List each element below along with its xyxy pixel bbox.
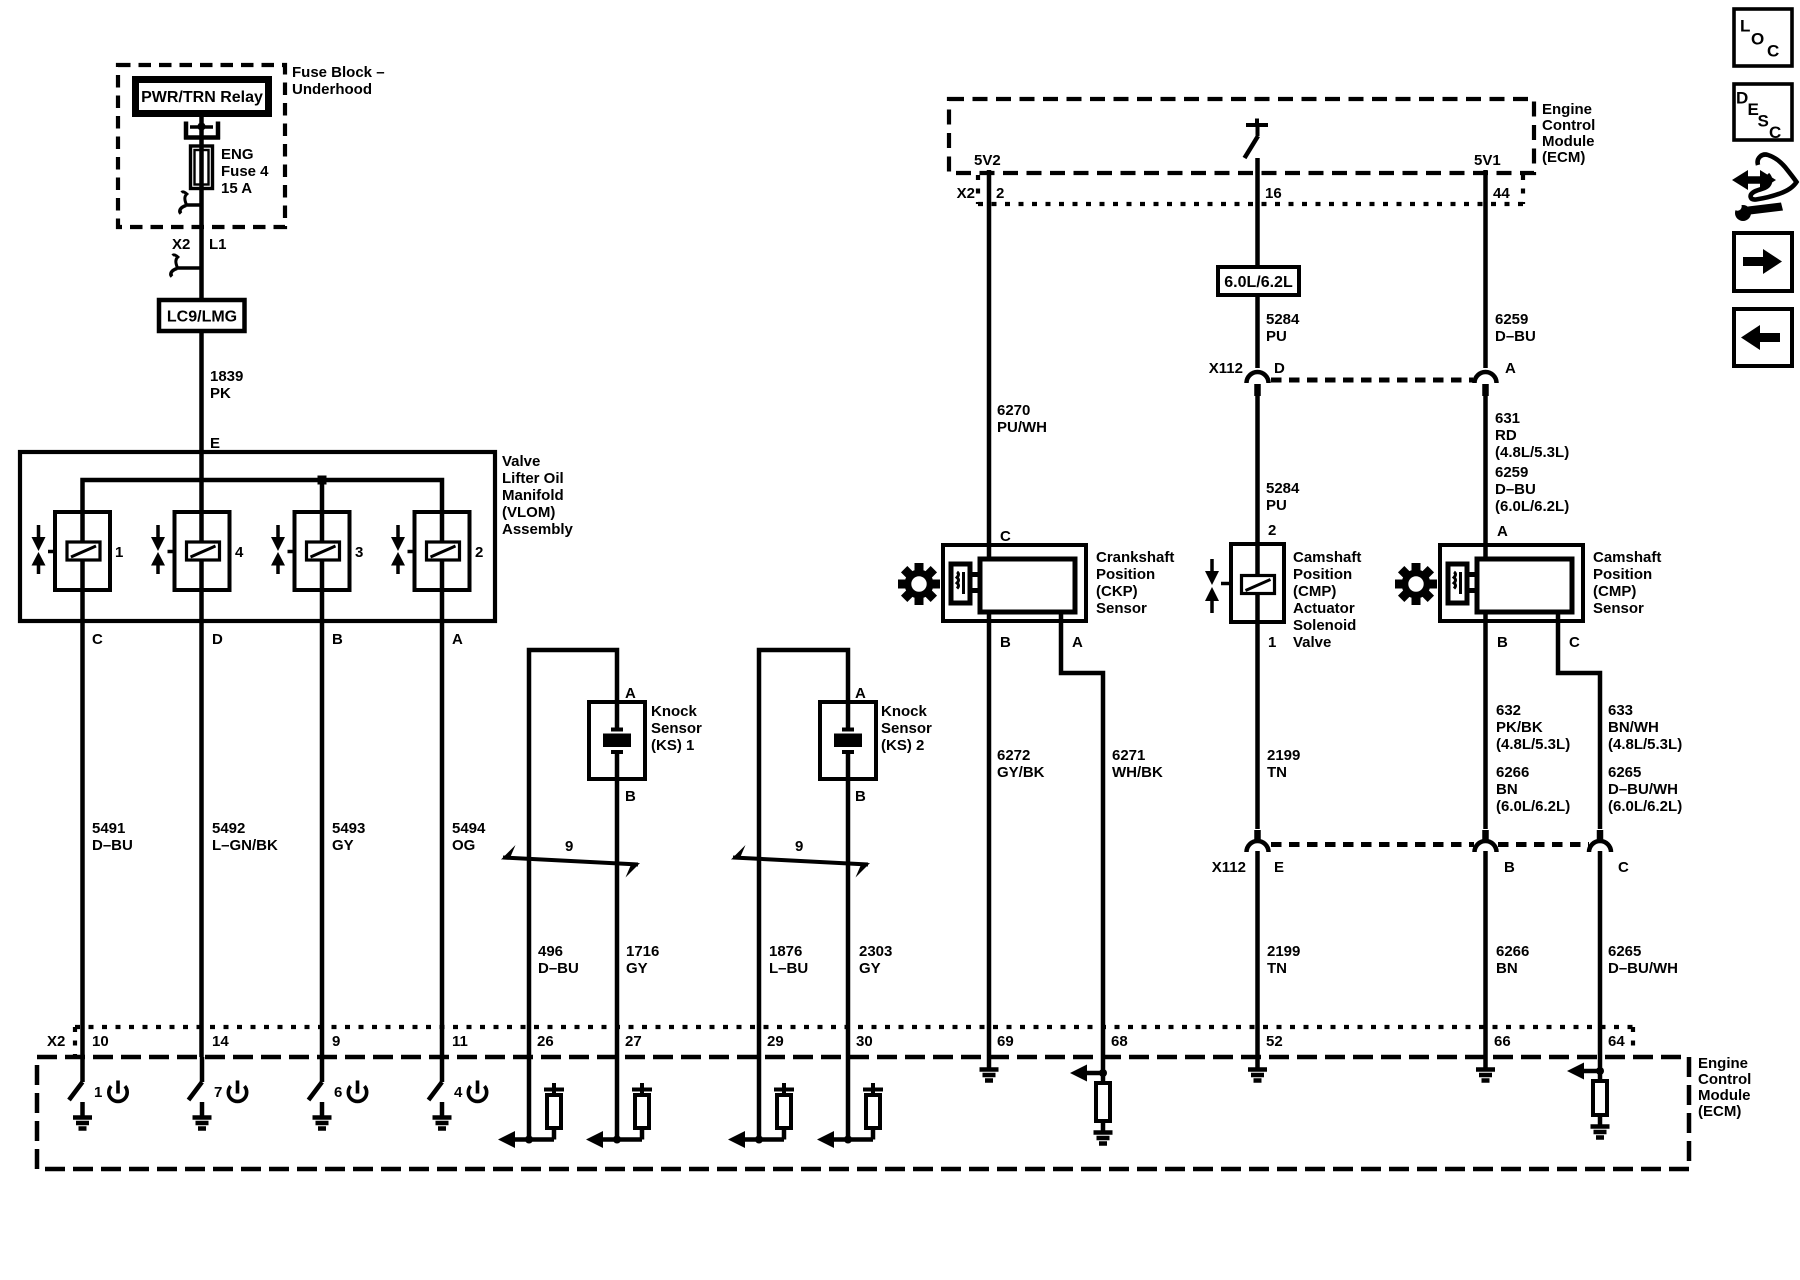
svg-text:X2: X2 (172, 236, 190, 253)
svg-text:LC9/LMG: LC9/LMG (167, 309, 237, 326)
ECM low-side driver 6 (309, 1057, 343, 1101)
bias resistor pin 29 (774, 1083, 794, 1140)
svg-text:L–BU: L–BU (769, 960, 808, 977)
CKP sensor outer box (943, 545, 1086, 621)
pin 30 label (856, 1033, 873, 1050)
wire 5284 PU to CMP actuator (1255, 396, 1260, 829)
CMP sensor outer box (1440, 545, 1583, 621)
wire X112 A to CMP sensor A (1483, 396, 1488, 559)
svg-text:Sensor: Sensor (1593, 600, 1644, 617)
knock sensor KS1 wires (529, 650, 617, 1057)
svg-text:Valve: Valve (1293, 634, 1331, 651)
label Engine Control Module (ECM) bottom (1698, 1055, 1751, 1120)
pin 14 label (212, 1033, 229, 1050)
pin 52 label (1266, 1033, 1283, 1050)
svg-text:(6.0L/6.2L): (6.0L/6.2L) (1608, 798, 1682, 815)
svg-text:Assembly: Assembly (502, 521, 574, 538)
svg-text:4: 4 (454, 1084, 463, 1101)
bias resistor pin 30 (863, 1083, 883, 1140)
svg-text:L1: L1 (209, 236, 227, 253)
svg-text:52: 52 (1266, 1033, 1283, 1050)
svg-text:631: 631 (1495, 410, 1520, 427)
svg-text:9: 9 (332, 1033, 340, 1050)
CKP pin C label (1000, 528, 1011, 545)
svg-text:C: C (1569, 634, 1580, 651)
svg-text:D–BU: D–BU (1495, 481, 1536, 498)
svg-text:A: A (1497, 523, 1508, 540)
svg-text:9: 9 (795, 838, 803, 855)
KS bias network pin 30 (817, 1057, 873, 1148)
svg-text:44: 44 (1493, 185, 1510, 202)
knock sensor KS1 (589, 702, 645, 779)
wire 1839 PK (199, 331, 204, 1057)
label 2199 TN upper (1267, 747, 1300, 781)
label Camshaft Position (CMP) Actuator Solenoid Valve (1293, 549, 1361, 651)
CKP pin A label (1072, 634, 1083, 651)
svg-text:PWR/TRN Relay: PWR/TRN Relay (141, 89, 263, 106)
svg-text:6266: 6266 (1496, 764, 1529, 781)
power icon driver 1 (109, 1081, 127, 1102)
svg-text:Engine: Engine (1698, 1055, 1748, 1072)
svg-text:Position: Position (1096, 566, 1155, 583)
svg-text:BN: BN (1496, 781, 1518, 798)
pin 16 label (1265, 185, 1282, 202)
valve symbol 4 (151, 525, 165, 574)
connector X112 pin C (1589, 830, 1611, 852)
svg-text:ENG: ENG (221, 146, 254, 163)
svg-text:D–BU: D–BU (538, 960, 579, 977)
knock sensor KS2 (820, 702, 876, 779)
KS1 pin B label (625, 788, 636, 805)
connector X112 label upper (1209, 360, 1243, 377)
svg-text:Lifter Oil: Lifter Oil (502, 470, 564, 487)
svg-text:Fuse 4: Fuse 4 (221, 163, 269, 180)
label 6271 WH/BK (1112, 747, 1163, 781)
label wire 5493 GY (332, 820, 365, 854)
svg-text:Actuator: Actuator (1293, 600, 1355, 617)
svg-text:C: C (1000, 528, 1011, 545)
ground pin 69 (980, 1057, 999, 1081)
svg-text:6272: 6272 (997, 747, 1030, 764)
relay K1 PWR/TRN Relay (136, 80, 269, 114)
svg-text:OG: OG (452, 837, 475, 854)
svg-text:(4.8L/5.3L): (4.8L/5.3L) (1608, 736, 1682, 753)
label Valve Lifter Oil Manifold (VLOM) Assembly (502, 453, 574, 538)
wire CMP B to X112 B (1483, 612, 1488, 829)
value label 4 (235, 544, 244, 561)
pin 68 sense network (1070, 1057, 1107, 1083)
pin 10 label (92, 1033, 109, 1050)
svg-text:B: B (625, 788, 636, 805)
pin A label (452, 631, 463, 648)
connector X112 pin B (1475, 830, 1497, 852)
ground pin 52 (1248, 1057, 1267, 1081)
svg-text:5491: 5491 (92, 820, 125, 837)
pin E label (210, 435, 220, 452)
svg-text:B: B (332, 631, 343, 648)
valve symbol 2 (391, 525, 405, 574)
svg-text:B: B (855, 788, 866, 805)
ground pin 64 resistor (1591, 1127, 1610, 1138)
X112 pin C label (1618, 859, 1629, 876)
svg-text:Knock: Knock (881, 703, 928, 720)
svg-text:C: C (1769, 123, 1781, 142)
svg-text:X112: X112 (1212, 859, 1246, 876)
svg-text:(4.8L/5.3L): (4.8L/5.3L) (1496, 736, 1570, 753)
label 1839 PK (210, 368, 243, 402)
solenoid valve 2 (408, 512, 470, 590)
svg-text:6259: 6259 (1495, 464, 1528, 481)
solenoid valve 3 (288, 512, 350, 590)
connector X2 label top (957, 185, 975, 202)
label Fuse Block - Underhood (292, 64, 385, 98)
pulldown resistor pin 68 (1096, 1083, 1110, 1132)
relay terminal cup (184, 122, 220, 140)
svg-text:PU/WH: PU/WH (997, 419, 1047, 436)
svg-text:66: 66 (1494, 1033, 1511, 1050)
CMP pin B label (1497, 634, 1508, 651)
svg-text:S: S (1758, 112, 1769, 131)
svg-text:(VLOM): (VLOM) (502, 504, 555, 521)
twisted pair marker 9 for KS2 (731, 838, 870, 878)
svg-text:GY: GY (332, 837, 354, 854)
connector clip symbol at X2 L1 (171, 255, 202, 277)
solenoid valve 4 (168, 512, 230, 590)
wire solenoid columns down to ECM (83, 512, 443, 1057)
label 2199 TN lower (1267, 943, 1300, 977)
svg-text:O: O (1751, 30, 1764, 49)
svg-text:A: A (1505, 360, 1516, 377)
connector X112 pin D (1247, 372, 1269, 396)
svg-text:3: 3 (355, 544, 363, 561)
svg-text:6.0L/6.2L: 6.0L/6.2L (1224, 274, 1293, 291)
svg-text:A: A (452, 631, 463, 648)
fuse F4 ENG Fuse 4 15 A (191, 146, 270, 197)
svg-text:27: 27 (625, 1033, 642, 1050)
svg-text:Control: Control (1698, 1071, 1751, 1088)
svg-text:6265: 6265 (1608, 764, 1641, 781)
nav icon swap/tools (1732, 155, 1797, 221)
svg-text:1716: 1716 (626, 943, 659, 960)
bias resistor pin 27 (632, 1083, 652, 1140)
svg-text:6271: 6271 (1112, 747, 1145, 764)
solenoid valve 1 (48, 512, 110, 590)
svg-text:5V2: 5V2 (974, 152, 1001, 169)
pin 9 label (332, 1033, 340, 1050)
reluctor wheel gear CMP (1386, 554, 1445, 613)
ECM X2 connector row top dotted (978, 175, 1523, 204)
junction on bus at solenoid 3 (318, 476, 327, 485)
svg-text:633: 633 (1608, 702, 1633, 719)
svg-text:Position: Position (1293, 566, 1352, 583)
svg-text:2303: 2303 (859, 943, 892, 960)
pin 27 label (625, 1033, 642, 1050)
svg-text:1: 1 (115, 544, 123, 561)
svg-text:2: 2 (996, 185, 1004, 202)
svg-text:C: C (1767, 42, 1779, 61)
label 633 BN/WH (4.8L/5.3L) (1608, 702, 1682, 753)
svg-text:X112: X112 (1209, 360, 1243, 377)
label 5284 PU lower (1266, 480, 1300, 514)
svg-text:15 A: 15 A (221, 180, 252, 197)
svg-text:B: B (1504, 859, 1515, 876)
label Crankshaft Position (CKP) Sensor (1096, 549, 1174, 617)
label wire 2303 GY (859, 943, 892, 977)
svg-text:D–BU: D–BU (1495, 328, 1536, 345)
connector X112 pin A (1475, 372, 1497, 396)
label 5284 PU upper (1266, 311, 1300, 345)
label 6259 D-BU (6.0L/6.2L) (1495, 464, 1569, 515)
svg-text:C: C (1618, 859, 1629, 876)
svg-text:5284: 5284 (1266, 480, 1300, 497)
svg-text:(6.0L/6.2L): (6.0L/6.2L) (1495, 498, 1569, 515)
svg-text:Underhood: Underhood (292, 81, 372, 98)
label 6272 GY/BK (997, 747, 1045, 781)
svg-text:B: B (1000, 634, 1011, 651)
value label 2 (475, 544, 483, 561)
ground driver 6 (313, 1102, 332, 1129)
svg-text:B: B (1497, 634, 1508, 651)
svg-text:A: A (1072, 634, 1083, 651)
power icon driver 4 (468, 1081, 486, 1102)
node 6.0L/6.2L (1218, 267, 1299, 295)
ECM X2 connector row bottom dotted (75, 1027, 1633, 1057)
CMP actuator solenoid valve (1221, 544, 1284, 622)
label 6259 D-BU upper (1495, 311, 1536, 345)
svg-text:TN: TN (1267, 764, 1287, 781)
pin C label (92, 631, 103, 648)
svg-text:E: E (210, 435, 220, 452)
power icon driver 7 (228, 1081, 246, 1102)
label 6265 D-BU/WH (6.0L/6.2L) (1608, 764, 1682, 815)
KS2 pin B label (855, 788, 866, 805)
svg-text:(KS) 1: (KS) 1 (651, 737, 694, 754)
label 632 PK/BK (4.8L/5.3L) (1496, 702, 1570, 753)
svg-text:PU: PU (1266, 328, 1287, 345)
valve symbol 3 (271, 525, 285, 574)
engine control module top dashed box (949, 99, 1534, 173)
nav button LOC (1734, 9, 1792, 66)
svg-text:(CMP): (CMP) (1293, 583, 1336, 600)
nav button DESC (1734, 84, 1792, 142)
pin 66 label (1494, 1033, 1511, 1050)
X112 pin E label (1274, 859, 1284, 876)
svg-text:9: 9 (565, 838, 573, 855)
svg-text:Sensor: Sensor (1096, 600, 1147, 617)
value label 3 (355, 544, 363, 561)
wire 6272 GY/BK CKP B to pin 69 (987, 612, 992, 1057)
ground driver 7 (193, 1102, 212, 1129)
svg-text:BN/WH: BN/WH (1608, 719, 1659, 736)
power icon driver 6 (348, 1081, 366, 1102)
pin 2 label (996, 185, 1004, 202)
label Knock Sensor (KS) 1 (651, 703, 702, 754)
svg-text:5493: 5493 (332, 820, 365, 837)
label 6270 PU/WH (997, 402, 1047, 436)
CMP sensor pin A label (1497, 523, 1508, 540)
CMP sensor element (1448, 564, 1477, 603)
svg-text:Position: Position (1593, 566, 1652, 583)
ECM low-side driver 7 (189, 1057, 223, 1101)
valve symbol CMP actuator (1205, 559, 1219, 613)
svg-text:5494: 5494 (452, 820, 486, 837)
ground pin 66 (1476, 1057, 1495, 1081)
connector X2 label bottom (47, 1033, 65, 1050)
KS1 pin A label (625, 685, 636, 702)
label Engine Control Module (ECM) top (1542, 101, 1595, 166)
wire 6266 BN to pin 66 (1483, 851, 1488, 1057)
svg-text:26: 26 (537, 1033, 554, 1050)
KS bias network pin 29 (728, 1057, 784, 1148)
wire 6259 D-BU pin44 to X112 A (1483, 170, 1488, 368)
svg-text:1839: 1839 (210, 368, 243, 385)
svg-text:2: 2 (1268, 522, 1276, 539)
pin 64 label (1608, 1033, 1625, 1050)
X112 dashed link B to C (1498, 842, 1589, 847)
svg-text:Sensor: Sensor (651, 720, 702, 737)
reluctor wheel gear CKP (889, 554, 948, 613)
KS2 pin A label (855, 685, 866, 702)
svg-text:Module: Module (1698, 1087, 1751, 1104)
bias resistor pin 26 (544, 1083, 564, 1140)
node X2 L1 (172, 236, 227, 253)
svg-text:6259: 6259 (1495, 311, 1528, 328)
pulldown resistor pin 64 (1593, 1081, 1607, 1126)
node LC9/LMG (159, 300, 245, 331)
nav button back arrow (1734, 309, 1792, 366)
svg-text:7: 7 (214, 1084, 222, 1101)
svg-text:2: 2 (475, 544, 483, 561)
connector X112 pin E (1247, 830, 1269, 852)
knock sensor KS2 wires (759, 650, 848, 1057)
pin 29 label (767, 1033, 784, 1050)
svg-text:PK: PK (210, 385, 231, 402)
net 5V1 label (1474, 152, 1501, 169)
CKP pin B label (1000, 634, 1011, 651)
svg-text:GY/BK: GY/BK (997, 764, 1045, 781)
svg-text:1: 1 (94, 1084, 102, 1101)
label wire 5494 OG (452, 820, 486, 854)
wire 6271 WH/BK CKP A to pin 68 (1061, 612, 1103, 1057)
svg-text:Crankshaft: Crankshaft (1096, 549, 1174, 566)
label 6266 BN (6.0L/6.2L) (1496, 764, 1570, 815)
ground driver 1 (73, 1102, 92, 1129)
svg-text:(ECM): (ECM) (1698, 1103, 1741, 1120)
svg-text:X2: X2 (47, 1033, 65, 1050)
pin 69 label (997, 1033, 1014, 1050)
pin 64 sense network (1567, 1057, 1604, 1081)
CKP sensor body (980, 559, 1075, 612)
pin 44 label (1493, 185, 1510, 202)
svg-text:10: 10 (92, 1033, 109, 1050)
svg-text:Fuse Block –: Fuse Block – (292, 64, 385, 81)
ECM low-side driver 1 (69, 1057, 102, 1101)
nav button forward arrow (1734, 233, 1792, 291)
VLOM assembly box (20, 452, 495, 621)
svg-text:PU: PU (1266, 497, 1287, 514)
CKP sensor element (951, 564, 980, 603)
svg-text:4: 4 (235, 544, 244, 561)
svg-text:D: D (212, 631, 223, 648)
svg-text:Valve: Valve (502, 453, 540, 470)
pin B label (332, 631, 343, 648)
label wire 5491 D-BU (92, 820, 133, 854)
ground pin 68 resistor (1094, 1133, 1113, 1144)
svg-text:6270: 6270 (997, 402, 1030, 419)
svg-text:(CKP): (CKP) (1096, 583, 1138, 600)
connector X112 label lower (1212, 859, 1246, 876)
label wire 5492 L-GN/BK (212, 820, 278, 854)
svg-text:D: D (1736, 89, 1748, 108)
svg-text:2199: 2199 (1267, 747, 1300, 764)
svg-text:TN: TN (1267, 960, 1287, 977)
svg-text:X2: X2 (957, 185, 975, 202)
svg-text:C: C (92, 631, 103, 648)
svg-text:29: 29 (767, 1033, 784, 1050)
connector clip symbol below fuse (180, 192, 202, 214)
svg-text:D–BU/WH: D–BU/WH (1608, 960, 1678, 977)
svg-text:Knock: Knock (651, 703, 698, 720)
svg-text:BN: BN (1496, 960, 1518, 977)
svg-text:68: 68 (1111, 1033, 1128, 1050)
ECM low-side driver 4 (429, 1057, 464, 1101)
wire pin16 to X112 D (1255, 158, 1260, 368)
label 631 RD (4.8L/5.3L) (1495, 410, 1569, 461)
svg-text:A: A (625, 685, 636, 702)
svg-text:496: 496 (538, 943, 563, 960)
label wire 496 D-BU (538, 943, 579, 977)
svg-text:Module: Module (1542, 133, 1595, 150)
svg-text:Sensor: Sensor (881, 720, 932, 737)
svg-text:PK/BK: PK/BK (1496, 719, 1543, 736)
svg-text:30: 30 (856, 1033, 873, 1050)
CMP actuator pin 1 label (1268, 634, 1276, 651)
svg-text:16: 16 (1265, 185, 1282, 202)
svg-text:(ECM): (ECM) (1542, 149, 1585, 166)
X112 pin D label (1274, 360, 1285, 377)
svg-text:6: 6 (334, 1084, 342, 1101)
svg-text:1876: 1876 (769, 943, 802, 960)
svg-text:D–BU: D–BU (92, 837, 133, 854)
wire 6265 D-BU/WH to pin 64 (1598, 851, 1603, 1057)
svg-text:(6.0L/6.2L): (6.0L/6.2L) (1496, 798, 1570, 815)
label wire 1876 L-BU (769, 943, 808, 977)
svg-text:Solenoid: Solenoid (1293, 617, 1356, 634)
svg-text:11: 11 (452, 1033, 468, 1050)
label wire 1716 GY (626, 943, 659, 977)
svg-text:Control: Control (1542, 117, 1595, 134)
label Knock Sensor (KS) 2 (881, 703, 932, 754)
svg-text:GY: GY (859, 960, 881, 977)
CMP sensor body (1477, 559, 1572, 612)
X112 dashed link D to A (1271, 378, 1473, 383)
value label 1 (115, 544, 123, 561)
X112 pin A label (1505, 360, 1516, 377)
svg-text:5284: 5284 (1266, 311, 1300, 328)
svg-text:1: 1 (1268, 634, 1276, 651)
svg-text:Engine: Engine (1542, 101, 1592, 118)
svg-text:L–GN/BK: L–GN/BK (212, 837, 278, 854)
svg-text:2199: 2199 (1267, 943, 1300, 960)
fuse block underhood dashed box (118, 65, 285, 227)
wire relay output to LC9/LMG (199, 117, 204, 301)
label 6266 BN lower (1496, 943, 1529, 977)
net 5V2 label (974, 152, 1001, 169)
svg-text:Camshaft: Camshaft (1293, 549, 1361, 566)
svg-text:69: 69 (997, 1033, 1014, 1050)
ground driver 4 (433, 1102, 452, 1129)
engine control module bottom dashed box (37, 1057, 1689, 1169)
